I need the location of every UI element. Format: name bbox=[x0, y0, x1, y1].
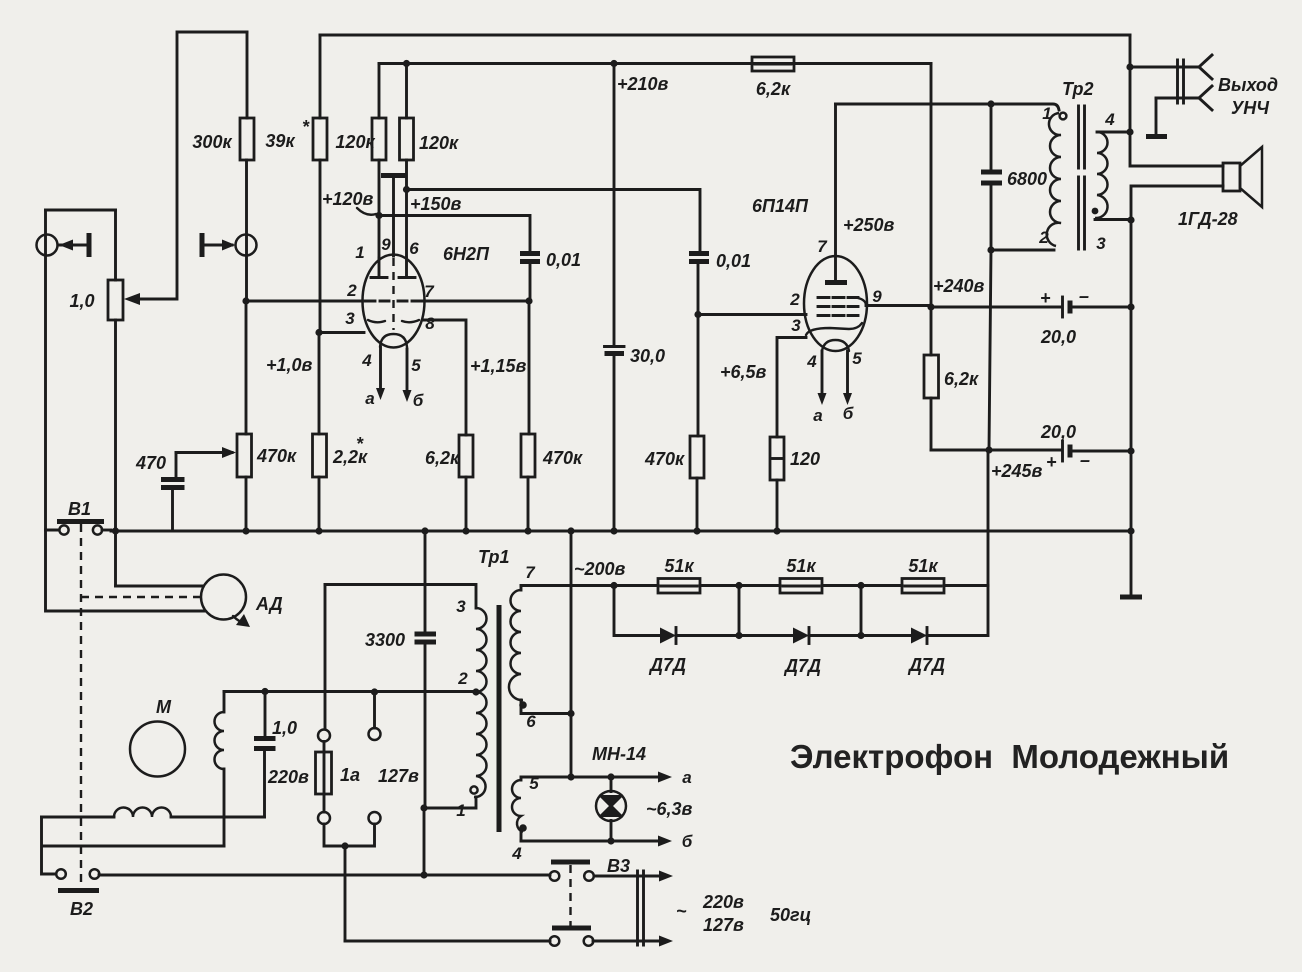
node 3300 top on bus bbox=[421, 527, 428, 534]
capacitor C 0,01 (coupling 2) bbox=[689, 251, 751, 315]
wire 220В tap (pin 3) to fuse bbox=[324, 585, 327, 730]
svg-text:а: а bbox=[813, 406, 822, 425]
svg-text:Д7Д: Д7Д bbox=[783, 656, 821, 676]
svg-text:3: 3 bbox=[456, 597, 466, 616]
transformer Tr2 core bbox=[1079, 106, 1085, 249]
node 30,0 bottom on bus bbox=[610, 527, 617, 534]
svg-text:5: 5 bbox=[852, 349, 862, 368]
node grid2/cap junction bbox=[525, 297, 532, 304]
wire motor common left bbox=[42, 817, 225, 874]
svg-text:Выход: Выход bbox=[1218, 75, 1278, 95]
ground chassis symbol bbox=[1120, 595, 1142, 600]
voltage selector contact 127В bbox=[369, 688, 381, 824]
svg-text:Д7Д: Д7Д bbox=[907, 655, 945, 675]
node 2,2к bottom on bus bbox=[315, 527, 322, 534]
wire cathode to R 120 bbox=[777, 338, 806, 438]
wire pin 7 to rectifier ~200В bbox=[521, 584, 614, 587]
wire heater line b bbox=[521, 840, 658, 843]
wire input node to grid bus bbox=[245, 301, 248, 434]
wire speaker hot line bbox=[1130, 35, 1223, 166]
potentiometer R 1,0 (volume) bbox=[69, 210, 123, 586]
node 470к bottom bbox=[693, 527, 700, 534]
svg-text:Тр2: Тр2 bbox=[1062, 79, 1094, 99]
svg-text:50гц: 50гц bbox=[770, 905, 811, 925]
capacitor C 6800 bbox=[981, 104, 1047, 250]
svg-text:*: * bbox=[302, 117, 310, 137]
node cathode 1 junction bbox=[315, 329, 322, 336]
svg-text:9: 9 bbox=[381, 235, 391, 254]
resistor R 6,2к (B+ dropper, horizontal) bbox=[752, 57, 794, 99]
transformer Tr2 primary winding bbox=[1038, 104, 1066, 247]
svg-text:20,0: 20,0 bbox=[1040, 327, 1076, 347]
resistor R 6,2к (cathode 2) bbox=[425, 435, 473, 531]
node 6800 top junction bbox=[987, 100, 994, 107]
svg-text:300к: 300к bbox=[192, 132, 232, 152]
tube U1 plate triode 2 bbox=[399, 258, 415, 278]
svg-text:+245в: +245в bbox=[991, 461, 1043, 481]
wire +245В to Tr2 primary bbox=[989, 250, 991, 450]
svg-text:120к: 120к bbox=[335, 132, 375, 152]
svg-text:3: 3 bbox=[345, 309, 355, 328]
transformer Tr2 secondary winding bbox=[1092, 110, 1116, 253]
capacitor C 470 bbox=[135, 453, 185, 532]
svg-text:7: 7 bbox=[424, 282, 435, 301]
svg-text:7: 7 bbox=[525, 563, 536, 582]
wire heater line a bbox=[521, 776, 658, 779]
capacitor C 30,0 (filter) bbox=[605, 64, 666, 532]
speaker 1ГД-28 bbox=[1178, 147, 1262, 229]
svg-text:4: 4 bbox=[361, 351, 372, 370]
wire B3 lower row bbox=[345, 940, 550, 943]
motor main winding (horizontal coil) bbox=[42, 808, 265, 818]
svg-text:В2: В2 bbox=[70, 899, 93, 919]
node screen junction bbox=[927, 303, 934, 310]
svg-text:6Н2П: 6Н2П bbox=[443, 244, 490, 264]
svg-text:20,0: 20,0 bbox=[1040, 422, 1076, 442]
svg-text:6,2к: 6,2к bbox=[944, 369, 979, 389]
wire speaker return / ground line bbox=[1131, 186, 1223, 594]
svg-text:470к: 470к bbox=[542, 448, 583, 468]
ladder link wires bbox=[739, 586, 861, 636]
svg-text:51к: 51к bbox=[908, 556, 938, 576]
motor start winding (vertical coil) bbox=[215, 692, 225, 847]
node Tr2 primary feed bbox=[985, 446, 992, 453]
svg-text:–: – bbox=[1079, 286, 1089, 306]
resistor R 39к* (feedback) bbox=[265, 35, 327, 333]
resistor R 470к (grid leak 2) bbox=[521, 301, 583, 531]
tube U2 6П14П envelope bbox=[752, 196, 867, 351]
svg-text:~200в: ~200в bbox=[574, 559, 626, 579]
svg-text:1,0: 1,0 bbox=[272, 718, 297, 738]
svg-text:+1,0в: +1,0в bbox=[266, 355, 313, 375]
svg-text:470к: 470к bbox=[256, 446, 297, 466]
svg-text:30,0: 30,0 bbox=[630, 346, 665, 366]
svg-text:1а: 1а bbox=[340, 765, 360, 785]
svg-text:+150в: +150в bbox=[410, 194, 462, 214]
svg-text:+210в: +210в bbox=[617, 74, 669, 94]
dashed link to AD bbox=[81, 596, 200, 598]
svg-text:6: 6 bbox=[409, 239, 419, 258]
wire AD lower lead bbox=[46, 530, 205, 611]
wire grid to 6П14П pin 2 bbox=[698, 313, 806, 316]
capacitor C 3300 (line filter) bbox=[365, 531, 436, 808]
tube U2 plate bar pin 7 bbox=[817, 104, 847, 283]
svg-text:127в: 127в bbox=[703, 915, 744, 935]
wire 127В tap (pin 2) bbox=[224, 690, 476, 693]
tube U1 bottom dome bbox=[380, 334, 407, 347]
wire Tr2 pin 4 to feedback/speaker line bbox=[1097, 131, 1130, 134]
resistor R 470к (grid leak 6П14П) bbox=[644, 315, 704, 532]
wire rectifier bottom row bbox=[614, 450, 988, 636]
switch B1 bbox=[46, 499, 112, 535]
tube U1 heater leads a b bbox=[365, 347, 423, 410]
svg-text:6,2к: 6,2к bbox=[756, 79, 791, 99]
svg-text:51к: 51к bbox=[786, 556, 816, 576]
node 120 bottom bbox=[773, 527, 780, 534]
svg-text:6800: 6800 bbox=[1007, 169, 1047, 189]
svg-text:Тр1: Тр1 bbox=[478, 547, 510, 567]
wire Tr2 pin 3 to ground line bbox=[1095, 218, 1131, 221]
node cap2 to ground line bbox=[1127, 447, 1134, 454]
node cap to ground line bbox=[1127, 303, 1134, 310]
svg-text:1: 1 bbox=[1042, 104, 1051, 123]
tube U2 heater leads a b bbox=[813, 351, 853, 425]
wire pin1 to mains bus bbox=[423, 808, 426, 875]
label +120В with pointer bbox=[322, 189, 376, 215]
svg-text:2: 2 bbox=[457, 669, 468, 688]
svg-text:4: 4 bbox=[1104, 110, 1115, 129]
lamp МН-14 bbox=[592, 744, 693, 845]
wire +245В node bbox=[931, 449, 1061, 452]
connector X1 (pickup input left) bbox=[37, 210, 116, 530]
svg-text:39к: 39к bbox=[265, 131, 295, 151]
svg-text:Д7Д: Д7Д bbox=[648, 655, 686, 675]
pickup AD (autostop disc) bbox=[201, 575, 283, 628]
svg-text:5: 5 bbox=[411, 356, 421, 375]
svg-text:0,01: 0,01 bbox=[546, 250, 581, 270]
node bus to ground line bbox=[1127, 527, 1134, 534]
svg-text:+: + bbox=[1040, 288, 1051, 308]
svg-text:б: б bbox=[682, 832, 693, 851]
svg-text:УНЧ: УНЧ bbox=[1231, 98, 1270, 118]
transformer Tr1 heater winding 5-4 bbox=[511, 774, 539, 863]
wire mains bus lower bbox=[99, 874, 550, 877]
svg-text:+1,15в: +1,15в bbox=[470, 356, 527, 376]
svg-text:6: 6 bbox=[526, 712, 536, 731]
connector X2 (input right) bbox=[202, 233, 257, 257]
wire pot bottom to AD top lead bbox=[116, 585, 204, 588]
fuse Пр 1а with holder contacts bbox=[316, 730, 361, 825]
svg-text:120к: 120к bbox=[419, 133, 459, 153]
svg-text:б: б bbox=[843, 404, 854, 423]
wire anode to Tr2 pin 1 bbox=[836, 104, 1060, 110]
wire grid bus (grid of 6Н2П triode 1) bbox=[246, 300, 362, 303]
svg-text:*: * bbox=[356, 434, 364, 454]
svg-text:+120в: +120в bbox=[322, 189, 374, 209]
wire cathode 1 to tube bbox=[319, 331, 364, 334]
tube U2 pin numbers bbox=[789, 287, 882, 371]
resistor R 6,2к (screen dropper) bbox=[924, 355, 979, 450]
node pin1 junction bbox=[420, 804, 427, 811]
motor M bbox=[130, 697, 185, 777]
wire Tr2 pin 2 bbox=[991, 249, 1054, 252]
resistor R 51к (2) bbox=[780, 556, 822, 593]
svg-text:В3: В3 bbox=[607, 856, 630, 876]
svg-text:2: 2 bbox=[789, 290, 800, 309]
svg-text:3: 3 bbox=[1096, 234, 1106, 253]
capacitor C 1,0 (motor phase) bbox=[254, 688, 297, 817]
resistor R 51к (1) bbox=[658, 556, 700, 593]
wire B3 to mains plug top bbox=[594, 875, 658, 878]
dashed link B1-B2 bbox=[80, 524, 82, 887]
svg-text:+240в: +240в bbox=[933, 276, 985, 296]
wire top feedback rail bbox=[320, 34, 1130, 37]
svg-text:4: 4 bbox=[806, 352, 817, 371]
svg-text:АД: АД bbox=[255, 594, 283, 614]
wire +240В screen feed vertical bbox=[930, 64, 933, 356]
tube U2 bottom dome bbox=[822, 340, 849, 351]
svg-text:3: 3 bbox=[791, 316, 801, 335]
svg-text:М: М bbox=[156, 697, 172, 717]
svg-text:0,01: 0,01 bbox=[716, 251, 751, 271]
svg-text:9: 9 bbox=[872, 287, 882, 306]
node 470к bottom on bus bbox=[242, 527, 249, 534]
diode D Д7Д (2) bbox=[783, 628, 821, 677]
svg-text:В1: В1 bbox=[68, 499, 91, 519]
svg-text:470к: 470к bbox=[644, 449, 685, 469]
mains plug double line bbox=[638, 871, 644, 945]
svg-text:а: а bbox=[365, 389, 374, 408]
tube U1 grid dashes bbox=[365, 300, 421, 303]
tube U2 cathode arc bbox=[806, 323, 862, 335]
wire top-left loop bbox=[130, 32, 247, 299]
tube U2 grid rows bbox=[818, 298, 866, 316]
svg-text:1: 1 bbox=[456, 801, 465, 820]
output jack Выход УНЧ bbox=[1130, 55, 1278, 137]
svg-text:3300: 3300 bbox=[365, 630, 405, 650]
svg-text:470: 470 bbox=[135, 453, 166, 473]
resistor R 300к bbox=[192, 32, 254, 301]
svg-text:127в: 127в bbox=[378, 766, 419, 786]
tube U1 plate triode 1 bbox=[371, 258, 387, 278]
svg-text:+250в: +250в bbox=[843, 215, 895, 235]
svg-text:+6,5в: +6,5в bbox=[720, 362, 767, 382]
node 470к bottom bbox=[524, 527, 531, 534]
resistor R 120к (plate load triode 1) bbox=[335, 64, 386, 259]
node selector to B3 bbox=[341, 842, 348, 849]
svg-text:51к: 51к bbox=[664, 556, 694, 576]
capacitor C 0,01 (coupling 1) bbox=[520, 250, 581, 301]
svg-text:6,2к: 6,2к bbox=[425, 448, 460, 468]
svg-text:2: 2 bbox=[1038, 228, 1049, 247]
svg-text:~: ~ bbox=[676, 901, 687, 921]
svg-text:220в: 220в bbox=[267, 767, 309, 787]
pin 9 shield bar of 6Н2П bbox=[381, 176, 406, 257]
svg-text:6П14П: 6П14П bbox=[752, 196, 809, 216]
resistor R 120к (plate load triode 2) bbox=[400, 60, 460, 258]
potentiometer R 1,0 wiper arrow bbox=[124, 293, 140, 305]
tube U1 pin numbers bbox=[345, 235, 435, 375]
svg-text:1,0: 1,0 bbox=[69, 291, 94, 311]
tube U1 shield dashed center bbox=[392, 258, 394, 330]
wire rectifier top row bbox=[614, 584, 988, 587]
wire plate 2 to second coupling cap bbox=[407, 190, 701, 253]
node grid 6П14П junction bbox=[694, 311, 701, 318]
wire grid 2 bus bbox=[423, 300, 529, 303]
label mains voltages bbox=[676, 892, 811, 935]
capacitor C 20,0 (main filter) bbox=[1040, 422, 1131, 472]
wire cathode 2 (pin 8) bbox=[423, 320, 466, 435]
svg-text:220в: 220в bbox=[702, 892, 744, 912]
svg-text:120: 120 bbox=[790, 449, 820, 469]
node Tr1 pin2 tap bbox=[472, 688, 479, 695]
wire B+ rail 210В bbox=[379, 62, 931, 65]
svg-text:+: + bbox=[1046, 452, 1057, 472]
wire screen grid pin 9 to +240В bbox=[866, 304, 931, 307]
node +210В rail junction bbox=[610, 60, 617, 67]
wire B3 to mains plug bottom bbox=[593, 940, 658, 943]
capacitor C 20,0 (screen filter) bbox=[931, 286, 1131, 347]
transformer Tr1 primary winding 3-2-1 bbox=[325, 585, 487, 821]
svg-text:1: 1 bbox=[355, 243, 364, 262]
node pot-bottom / bus junction bbox=[112, 527, 119, 534]
wire plate 1 to coupling cap C 0,01 bbox=[379, 216, 530, 253]
tube U1 cathodes bbox=[368, 320, 419, 322]
switch B2 bbox=[56, 869, 99, 919]
diode D Д7Д (1) bbox=[648, 628, 686, 676]
svg-text:8: 8 bbox=[425, 314, 435, 333]
node 6800 bottom junction bbox=[987, 246, 994, 253]
potentiometer R 470к (tone) bbox=[176, 434, 297, 531]
switch B3 bbox=[550, 856, 630, 946]
node 6,2к bottom bbox=[462, 527, 469, 534]
transformer Tr1 core bbox=[497, 605, 502, 832]
svg-text:–: – bbox=[1080, 450, 1090, 470]
wire ground drop to heater common bbox=[570, 531, 573, 777]
svg-text:1ГД-28: 1ГД-28 bbox=[1178, 209, 1238, 229]
svg-text:МН-14: МН-14 bbox=[592, 744, 646, 764]
node plate1 / coupling junction bbox=[375, 212, 382, 219]
resistor R 51к (3) bbox=[902, 556, 944, 593]
resistor R 120 (cathode 6П14П) bbox=[770, 437, 820, 531]
resistor R 2,2к* (cathode bias) bbox=[313, 333, 369, 532]
node plate2 / +150В junction bbox=[403, 186, 410, 193]
svg-text:~6,3в: ~6,3в bbox=[646, 799, 693, 819]
wire main ground bus bbox=[111, 530, 1131, 533]
selector common U-wire bbox=[324, 824, 375, 846]
svg-text:Электрофон Молодежный: Электрофон Молодежный bbox=[790, 738, 1229, 775]
node rectifier input bbox=[610, 582, 617, 589]
svg-text:7: 7 bbox=[817, 237, 828, 256]
tube U1 6Н2П envelope bbox=[363, 244, 491, 348]
svg-text:б: б bbox=[413, 391, 424, 410]
transformer Tr1 HV winding 7-6 bbox=[509, 563, 571, 731]
svg-text:2: 2 bbox=[346, 281, 357, 300]
diode D Д7Д (3) bbox=[907, 628, 945, 676]
node jack junction bbox=[1126, 63, 1133, 70]
svg-text:4: 4 bbox=[511, 844, 522, 863]
node input/grid junction bbox=[242, 297, 249, 304]
svg-text:а: а bbox=[682, 768, 691, 787]
